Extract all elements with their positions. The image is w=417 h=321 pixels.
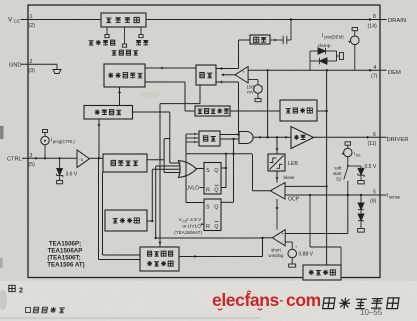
IC outline box TEA1506 [28, 5, 380, 278]
inverter amplifier -1 [77, 150, 90, 168]
wire over-temperature output [147, 220, 152, 222]
driver amplifier 驱动 [291, 127, 314, 149]
block over-voltage 超压保护 [280, 100, 317, 121]
wire converter to OVP [230, 110, 280, 112]
wire valley-logic third input [216, 81, 239, 83]
node DRAIN junction [369, 18, 371, 20]
bus vertical thermal to OR [151, 169, 153, 221]
block logic 逻辑 lower [199, 131, 220, 146]
wire ctrl to freq-control [98, 119, 100, 158]
pin 6 DRIVER lead [314, 136, 387, 138]
wire OCP output [253, 190, 271, 192]
paper grain [0, 126, 4, 139]
wire OCP down to short-winding [276, 199, 278, 230]
bus vertical short-winding to OR [155, 166, 157, 238]
wires FF1 outputs [221, 167, 226, 169]
wires into lower logic [186, 133, 199, 135]
switch soft-start S2 [347, 157, 349, 166]
wire OVP to DEM vertical [317, 110, 327, 112]
current source Iss [345, 142, 351, 145]
ground symbol [53, 70, 61, 74]
wire FF2 S input [186, 202, 204, 204]
OR gate [179, 161, 197, 178]
bus vertical A to max-on-time [159, 104, 161, 247]
flip-flop FF2 SR [204, 199, 221, 231]
wire short-winding output [263, 237, 273, 239]
terminal undervoltage stub [124, 27, 126, 44]
AND gate [239, 132, 253, 144]
wire max-on-time output [179, 256, 263, 258]
block power-on-reset 上电复位 [103, 154, 147, 172]
wire demag to gate line [267, 70, 269, 137]
comparator OCP [270, 183, 285, 199]
wire demag comparator output to logic [222, 74, 236, 76]
current source Iprog(CTRL) [44, 157, 46, 159]
wire branch Isense to overload box [309, 194, 311, 196]
block over-temperature 超温保护 [105, 210, 147, 231]
terminal internal-supply stub [106, 27, 108, 35]
terminal startup stub [140, 27, 142, 35]
pin 1 VCC lead [21, 19, 102, 21]
pin 5 Isense lead [285, 194, 386, 196]
wires OR inputs [170, 162, 181, 164]
block logic 逻辑 upper [196, 65, 216, 85]
zener diode 0.5V [348, 165, 361, 167]
pin 3 CTRL lead [22, 157, 77, 159]
wire DEM rail down to overload protection [326, 70, 328, 265]
wire AND output to driver [253, 136, 291, 138]
block valley 谷值 [250, 35, 270, 44]
label 内部供电 [89, 41, 94, 45]
voltage source 0.88V [285, 241, 292, 243]
wire valley to logic [239, 39, 251, 41]
diode chain below Isense [360, 195, 362, 203]
wire LEB to OCP blank [276, 171, 278, 183]
capacitor to DRAIN rail [290, 20, 292, 41]
pin 2 GND lead [21, 63, 57, 65]
block converter 升降压变换 [195, 106, 230, 116]
label 启动 [136, 40, 141, 44]
comparator demag 100mV [235, 67, 248, 84]
wires logic to AND gate [220, 134, 239, 136]
caption 家庭电子 [26, 308, 31, 313]
pin 4 DEM lead [248, 69, 386, 71]
label 欠压控制 [112, 51, 117, 55]
wire FF feedback bus [186, 153, 234, 155]
wire freq-control to VCO [119, 87, 121, 106]
wire logic bottom to bus [199, 85, 201, 104]
wire power-on-reset jog to OR [146, 159, 164, 161]
wire -1 output node [90, 157, 104, 159]
block VCO 压控振荡器 [104, 64, 145, 87]
wire ctrl buses into max-on-time [98, 158, 100, 259]
watermark 电子发烧友 [323, 298, 335, 309]
caption 图2 [9, 285, 15, 291]
block frequency-control 频率控制 [84, 106, 133, 120]
current source Iprot(DEM) [352, 28, 357, 31]
wire VCC rail to DRAIN [146, 19, 387, 21]
wire logic to VCO [145, 67, 196, 69]
block LEB leading-edge-blanking [276, 137, 278, 154]
wire freq-control to OR bus [133, 111, 170, 113]
flip-flop FF1 SR [204, 163, 221, 195]
wire VCO output to converter [145, 81, 185, 83]
comparator short-winding [272, 230, 285, 246]
wires OCP inputs [285, 185, 327, 187]
zener diode 3.6V [58, 157, 60, 159]
block overload 过载保护 [303, 265, 341, 280]
wire Isense to short-winding input [347, 195, 349, 234]
block supply-management 供电管理 [101, 13, 146, 27]
wire OR output to FF1 S [197, 168, 205, 170]
voltage source 100 mV [248, 79, 258, 81]
block max-on-time 最大导通时间保护 [140, 247, 179, 271]
